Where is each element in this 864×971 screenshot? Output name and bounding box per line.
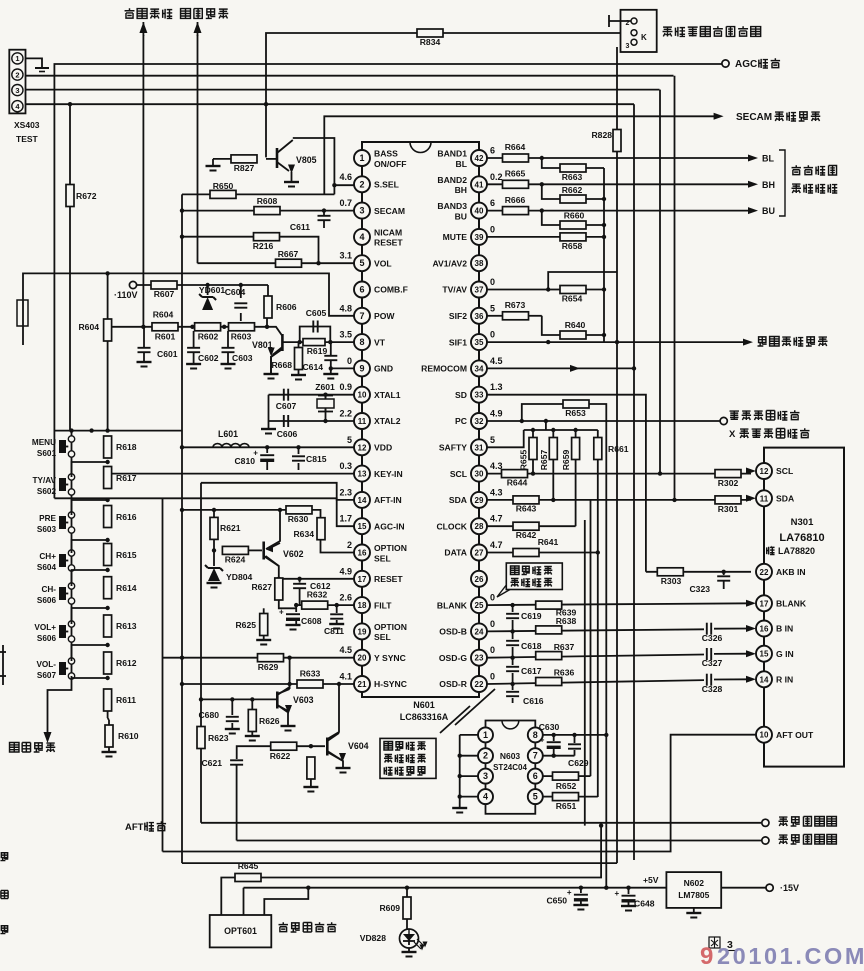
- svg-text:ST24C04: ST24C04: [493, 763, 527, 772]
- wire N603 left rail: [459, 735, 461, 808]
- wire R663 link: [542, 158, 560, 168]
- wire S-switch drop / R828 line x617: [616, 47, 618, 863]
- wire C605 bypass box: [300, 327, 331, 343]
- resistor R615: [104, 544, 112, 566]
- svg-text:S604: S604: [37, 563, 57, 572]
- wire R662 link: [542, 184, 560, 199]
- svg-text:ON/OFF: ON/OFF: [374, 159, 406, 169]
- svg-text:DATA: DATA: [444, 548, 467, 558]
- svg-text:6: 6: [359, 285, 364, 295]
- svg-text:27: 27: [475, 549, 484, 558]
- wire S607 bottom tap: [72, 676, 108, 678]
- wire TV/AV stub up: [548, 272, 617, 290]
- pin 1 N603: [478, 727, 493, 742]
- svg-text:R615: R615: [116, 550, 137, 560]
- svg-text:POW: POW: [374, 311, 395, 321]
- resistor R661: [594, 438, 602, 460]
- IC N601 LC863316A body: [362, 142, 479, 697]
- svg-text:G IN: G IN: [776, 649, 794, 659]
- wire C811 stub: [336, 605, 338, 613]
- node R608 row left: [180, 208, 184, 212]
- label YD601 diode: [202, 296, 213, 298]
- svg-text:R630: R630: [288, 514, 309, 524]
- svg-text:CH+: CH+: [39, 552, 56, 561]
- svg-text:C323: C323: [689, 584, 710, 594]
- wire C323 stub: [723, 572, 725, 575]
- svg-text:S606: S606: [37, 634, 57, 643]
- IC N602 LM7805 body: [666, 872, 721, 908]
- svg-text:4: 4: [359, 232, 364, 242]
- svg-text:FILT: FILT: [374, 600, 392, 610]
- resistor R650: [210, 190, 236, 198]
- pin 21 N601 H-SYNC: [361, 666, 363, 676]
- svg-text:REMOCOM: REMOCOM: [421, 364, 467, 374]
- wire R653 hook: [522, 404, 563, 421]
- svg-text:R604: R604: [78, 322, 99, 332]
- wire field flyback line: [201, 822, 761, 824]
- svg-text:R302: R302: [718, 478, 739, 488]
- svg-text:BU: BU: [455, 211, 467, 221]
- svg-text:C605: C605: [306, 308, 327, 318]
- ground C650: [573, 904, 588, 906]
- svg-text:28: 28: [475, 522, 484, 531]
- svg-text:R661: R661: [608, 444, 629, 454]
- svg-text:VT: VT: [374, 337, 386, 347]
- svg-text:12: 12: [760, 467, 769, 476]
- node GND row junction: [329, 366, 333, 370]
- wire S603 tap: [72, 500, 108, 515]
- wire OSD-B row: [487, 629, 704, 631]
- svg-text:·15V: ·15V: [780, 883, 799, 893]
- svg-text:H-SYNC: H-SYNC: [374, 679, 407, 689]
- wire AKB row: [646, 571, 751, 573]
- svg-text:C612: C612: [310, 581, 331, 591]
- capacitor C612: [293, 583, 306, 585]
- svg-text:XS403: XS403: [14, 120, 40, 130]
- svg-text:C602: C602: [198, 353, 219, 363]
- svg-text:11: 11: [760, 494, 769, 503]
- svg-text:SDA: SDA: [449, 495, 467, 505]
- svg-text:6: 6: [490, 146, 495, 156]
- svg-text:R604: R604: [153, 310, 174, 320]
- svg-text:S602: S602: [37, 487, 57, 496]
- wire V603 collector drop: [289, 658, 291, 689]
- svg-text:R216: R216: [253, 241, 274, 251]
- svg-text:R614: R614: [116, 583, 137, 593]
- svg-text:C621: C621: [201, 758, 222, 768]
- svg-text:R621: R621: [220, 523, 241, 533]
- left edge partial component: [17, 300, 28, 326]
- svg-text:4.5: 4.5: [490, 356, 503, 366]
- svg-text:TV/AV: TV/AV: [442, 285, 467, 295]
- resistor R302: [715, 470, 741, 478]
- svg-text:R640: R640: [565, 320, 586, 330]
- svg-text:AKB IN: AKB IN: [776, 567, 806, 577]
- capacitor C810: [260, 454, 274, 456]
- wire C608 top stub: [295, 605, 297, 612]
- node V805 base junction on bus4: [264, 102, 268, 106]
- svg-text:S603: S603: [37, 525, 57, 534]
- wire XS403 bus pin3: [26, 89, 660, 91]
- resistor R607: [151, 281, 177, 289]
- svg-text:42: 42: [475, 154, 484, 163]
- svg-text:2.3: 2.3: [339, 487, 352, 497]
- svg-text:22: 22: [475, 680, 484, 689]
- pin 28 N601 CLOCK: [478, 508, 480, 518]
- svg-text:R632: R632: [307, 590, 328, 600]
- wire R624 to V602 base: [248, 549, 262, 551]
- resistor R634: [317, 518, 325, 540]
- svg-text:+: +: [279, 608, 284, 617]
- wire R609 hang: [406, 888, 408, 898]
- wire BU row pin40: [487, 210, 749, 212]
- wire long left vertical x201 AFT/V603: [200, 483, 202, 823]
- svg-text:OPTION: OPTION: [374, 543, 407, 553]
- svg-text:40: 40: [475, 207, 484, 216]
- resistor R604: [104, 319, 112, 341]
- svg-text:4.5: 4.5: [339, 645, 352, 655]
- ground N602: [686, 912, 701, 914]
- pin 13 N601 KEY-IN: [361, 455, 363, 465]
- svg-text:R638: R638: [556, 616, 577, 626]
- arrow standby control: [44, 732, 52, 743]
- wire +110V feed row: [133, 284, 268, 286]
- wire C614 stubs: [330, 342, 332, 355]
- svg-text:BAND1: BAND1: [437, 149, 467, 159]
- svg-text:17: 17: [358, 575, 367, 584]
- resistor R624: [222, 546, 248, 554]
- svg-text:VOL: VOL: [374, 258, 392, 268]
- resistor R662: [560, 195, 586, 203]
- pin 23 N601 OSD-G: [478, 639, 480, 649]
- svg-text:S601: S601: [37, 449, 57, 458]
- svg-text:+: +: [540, 736, 545, 745]
- pin 18 N601 FILT: [361, 587, 363, 597]
- svg-text:R828: R828: [591, 130, 612, 140]
- svg-text:C606: C606: [277, 429, 298, 439]
- resistor R651: [553, 793, 579, 801]
- ground N603 rail: [452, 807, 467, 809]
- wire N603 pin6 row R652: [543, 775, 552, 777]
- transistor V805: [266, 158, 277, 160]
- capacitor C680: [226, 716, 239, 718]
- svg-text:20: 20: [358, 654, 367, 663]
- wire BL row pin42: [487, 157, 749, 159]
- svg-text:C810: C810: [234, 456, 255, 466]
- svg-text:R623: R623: [208, 733, 229, 743]
- wire N603 pin5 row R651: [543, 796, 552, 798]
- svg-text:0: 0: [490, 330, 495, 340]
- svg-text:C603: C603: [232, 353, 253, 363]
- wire V603 base row: [201, 698, 276, 700]
- pin 31 N601 SAFTY: [478, 429, 480, 439]
- svg-text:AV1/AV2: AV1/AV2: [432, 258, 467, 268]
- wire AGC input line corner to pin15 AGC-IN: [54, 498, 354, 526]
- pin 3 N603: [478, 769, 493, 784]
- wire +5V rail: [244, 887, 667, 889]
- svg-text:4.8: 4.8: [339, 303, 352, 313]
- wire C650 stub: [580, 888, 582, 893]
- arrow BU output: [748, 207, 758, 214]
- wire KEY-IN row pin13: [108, 473, 354, 475]
- svg-text:21: 21: [358, 680, 367, 689]
- button S602 TY/AV: [68, 474, 74, 480]
- wire C680 stub: [231, 699, 233, 715]
- capacitor C323: [717, 575, 730, 577]
- svg-text:R655: R655: [519, 450, 529, 471]
- svg-text:LM7805: LM7805: [678, 890, 709, 900]
- resistor R654: [560, 286, 586, 294]
- pin 40 N601 BAND3: [478, 192, 480, 202]
- wire V603 emitter: [277, 705, 288, 726]
- pin 7 N603: [528, 748, 543, 763]
- resistor R602: [195, 323, 221, 331]
- resistor R834: [417, 29, 443, 37]
- wire OSD-R row: [487, 680, 704, 684]
- svg-text:R601: R601: [155, 332, 176, 342]
- svg-text:26: 26: [475, 575, 484, 584]
- svg-text:R834: R834: [420, 37, 441, 47]
- pin 22 N601 OSD-R: [478, 666, 480, 676]
- resistor R622: [271, 742, 297, 750]
- svg-text:C604: C604: [225, 287, 246, 297]
- svg-text:3.5: 3.5: [339, 330, 352, 340]
- wire PC row pin32 to protect terminal: [487, 420, 720, 422]
- svg-text:9: 9: [700, 943, 713, 966]
- capacitor C619: [506, 613, 519, 615]
- svg-text:R658: R658: [562, 241, 583, 251]
- svg-text:SD: SD: [455, 390, 467, 400]
- wire R660 link: [542, 211, 560, 225]
- resistor R652: [553, 772, 579, 780]
- resistor R609: [403, 897, 411, 919]
- svg-text:NICAM: NICAM: [374, 227, 402, 237]
- wire DATA row pin27: [487, 552, 598, 554]
- wire S607 tap: [72, 645, 108, 661]
- pin 15 N601 AGC-IN: [361, 508, 363, 518]
- pin 22 N301 AKB IN: [763, 506, 765, 564]
- wire R216 row: [182, 237, 319, 264]
- resistor R655: [529, 438, 537, 460]
- resistor R658: [560, 233, 586, 241]
- pin 32 N601 PC: [478, 403, 480, 413]
- svg-text:SIF1: SIF1: [449, 337, 467, 347]
- svg-text:2: 2: [15, 70, 19, 79]
- svg-text:36: 36: [475, 312, 484, 321]
- wire R625 hang: [263, 608, 265, 613]
- svg-text:CLOCK: CLOCK: [436, 521, 467, 531]
- svg-text:R659: R659: [561, 450, 571, 471]
- svg-text:31: 31: [475, 443, 484, 452]
- wire V805 collector to SECAM output: [293, 138, 335, 194]
- svg-text:11: 11: [358, 417, 367, 426]
- svg-text:10: 10: [358, 391, 367, 400]
- svg-text:R603: R603: [231, 332, 252, 342]
- ground R625: [256, 639, 271, 641]
- resistor R627: [275, 578, 283, 600]
- wire XS403 bus pin2: [26, 75, 674, 77]
- wire YD804 stub: [213, 550, 215, 566]
- svg-text:+5V: +5V: [643, 875, 659, 885]
- wire N602 gnd stub: [693, 908, 695, 913]
- svg-text:15: 15: [760, 650, 769, 659]
- svg-text:LA76810: LA76810: [779, 532, 824, 544]
- svg-text:35: 35: [475, 338, 484, 347]
- wire C604 stub: [240, 285, 242, 298]
- svg-text:N301: N301: [791, 517, 814, 528]
- node R619 ends: [298, 340, 302, 344]
- wire R619/VT row pin8: [325, 341, 362, 343]
- arrow into N301 pin 11: [746, 495, 756, 502]
- wire OSD-G row: [487, 655, 704, 658]
- svg-text:20101.COM: 20101.COM: [717, 943, 864, 966]
- wire R658 right: [586, 236, 604, 238]
- svg-text:2.6: 2.6: [339, 593, 352, 603]
- resistor R617: [104, 467, 112, 489]
- svg-text:V603: V603: [293, 695, 314, 705]
- svg-text:Y SYNC: Y SYNC: [374, 653, 406, 663]
- svg-text:C680: C680: [198, 710, 219, 720]
- wire C810 stubs: [266, 447, 268, 453]
- wire R627 stub: [278, 578, 280, 580]
- node SIF1 junction x617: [615, 340, 619, 344]
- terminal +15V: [766, 884, 773, 891]
- svg-text:SCL: SCL: [450, 469, 467, 479]
- svg-text:30: 30: [475, 470, 484, 479]
- svg-text:15: 15: [358, 522, 367, 531]
- wire GND row pin9: [331, 367, 362, 369]
- svg-text:R303: R303: [661, 576, 682, 586]
- svg-text:R672: R672: [76, 191, 97, 201]
- svg-text:R625: R625: [235, 620, 256, 630]
- svg-text:R301: R301: [718, 504, 739, 514]
- wire standby control drop: [48, 676, 72, 732]
- wire C614 gnd stem: [330, 368, 332, 374]
- svg-text:12: 12: [358, 443, 367, 452]
- resistor R644: [502, 470, 528, 478]
- svg-text:0: 0: [490, 619, 495, 629]
- wire XTAL1 row pin10: [269, 394, 355, 396]
- pin 10 N601 XTAL1: [361, 376, 363, 386]
- wire SIF1 row pin35 long: [487, 341, 748, 343]
- resistor R827: [231, 155, 257, 163]
- svg-text:BAND3: BAND3: [437, 201, 467, 211]
- capacitor C327: [706, 648, 708, 660]
- svg-text:KEY-IN: KEY-IN: [374, 469, 403, 479]
- svg-text:R607: R607: [154, 289, 175, 299]
- svg-text:C608: C608: [301, 616, 322, 626]
- svg-text:C618: C618: [521, 641, 542, 651]
- left edge partial hanzi: [0, 853, 8, 861]
- svg-text:AGC-IN: AGC-IN: [374, 521, 405, 531]
- svg-text:2: 2: [483, 751, 488, 761]
- pin 39 N601 MUTE: [478, 219, 480, 229]
- arrow sound system control: [743, 339, 753, 346]
- resistor R645: [235, 874, 261, 882]
- svg-text:13: 13: [358, 470, 367, 479]
- resistor R663: [560, 164, 586, 172]
- pin 4 N603: [478, 789, 493, 804]
- pin 14 N301 R IN: [763, 662, 765, 672]
- wire R625 bottom gnd stub: [263, 636, 265, 640]
- wire TV/AV row pin37: [487, 289, 548, 291]
- svg-text:5: 5: [490, 303, 495, 313]
- resistor R640: [560, 331, 586, 339]
- svg-text:0: 0: [490, 277, 495, 287]
- svg-text:R668: R668: [271, 360, 292, 370]
- svg-text:R641: R641: [538, 537, 559, 547]
- arrow into N301 pin 12: [746, 468, 756, 475]
- label band switch voltage output: [792, 165, 801, 174]
- wire R621 stub: [213, 510, 215, 518]
- wire R650 row: [182, 193, 334, 195]
- node pin4 bus junction R672: [68, 102, 72, 106]
- pin 30 N601 SCL: [478, 455, 480, 465]
- capacitor C601: [138, 347, 151, 349]
- wire volume-control vertical: [197, 35, 199, 263]
- svg-text:R652: R652: [556, 781, 577, 791]
- label S-terminal sync switch: [663, 27, 673, 36]
- wire C611 stubs: [323, 211, 325, 216]
- svg-text:14: 14: [358, 496, 367, 505]
- svg-text:BH: BH: [762, 180, 775, 190]
- resistor R303: [657, 568, 683, 576]
- ground R827 left: [213, 158, 231, 160]
- svg-text:29: 29: [475, 496, 484, 505]
- wire long left vertical x182: [181, 194, 183, 863]
- svg-text:1: 1: [359, 153, 364, 163]
- transistor V801: [281, 334, 284, 351]
- pin 42 N601 BAND1: [471, 150, 487, 166]
- svg-text:V805: V805: [296, 155, 317, 165]
- svg-text:YD804: YD804: [226, 572, 252, 582]
- svg-text:VD828: VD828: [360, 933, 386, 943]
- svg-text:C614: C614: [302, 362, 323, 372]
- resistor R614: [104, 577, 112, 599]
- svg-text:R666: R666: [505, 195, 526, 205]
- wire x162.5 vertical to bottom: [162, 498, 164, 851]
- wire SDA row pin29: [487, 499, 751, 501]
- wire V604 emitter resistor hang: [310, 746, 312, 748]
- svg-text:VOL-: VOL-: [36, 660, 56, 669]
- svg-text:B IN: B IN: [776, 624, 793, 634]
- svg-text:C616: C616: [523, 696, 544, 706]
- button S607 VOL-: [68, 658, 74, 664]
- resistor R664: [503, 154, 529, 162]
- svg-text:SDA: SDA: [776, 494, 794, 504]
- wire R645 row: [221, 826, 601, 915]
- wire BLANK row pin25 to N301 pin17: [487, 603, 751, 605]
- capacitor C607: [283, 389, 285, 401]
- svg-text:+: +: [615, 889, 620, 898]
- resistor R660: [560, 221, 586, 229]
- node crystal junctions: [323, 393, 327, 397]
- pin 17 N301 BLANK: [763, 580, 765, 596]
- svg-text:4.7: 4.7: [490, 514, 503, 524]
- svg-text:V604: V604: [348, 741, 369, 751]
- svg-text:4.6: 4.6: [339, 172, 352, 182]
- node R667 junction: [316, 261, 320, 265]
- ground R668: [291, 374, 306, 376]
- wire verticals x584.8 x590.5: [584, 520, 586, 826]
- svg-text:BH: BH: [455, 185, 467, 195]
- svg-text:SIF2: SIF2: [449, 311, 467, 321]
- wire R834 line to S-switch: [266, 33, 621, 157]
- box OPT601: [210, 915, 272, 947]
- wire tuning-voltage vertical: [142, 35, 144, 327]
- resistor R625: [260, 614, 268, 636]
- svg-text:RESET: RESET: [374, 238, 403, 248]
